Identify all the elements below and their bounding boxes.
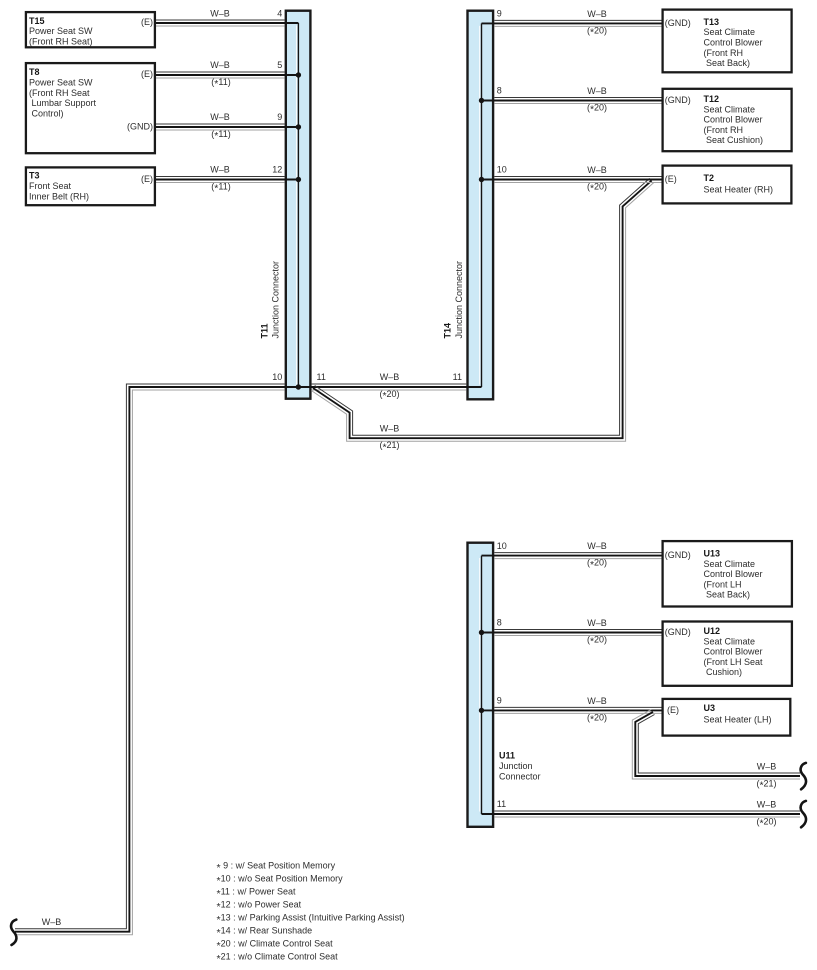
svg-text:(GND): (GND) xyxy=(665,550,691,560)
svg-text:(GND): (GND) xyxy=(665,627,691,637)
svg-text:5: 5 xyxy=(277,60,282,70)
wire W-B (*11) from T8 (GND) to T11 pin 9 xyxy=(156,124,298,130)
junction dot T14 pin 8 xyxy=(479,98,484,103)
svg-text:T15: T15 xyxy=(29,16,45,26)
svg-text:T13: T13 xyxy=(704,17,720,27)
svg-text:(Front RH Seat: (Front RH Seat xyxy=(29,88,90,98)
T11 internal busbar xyxy=(297,23,299,387)
svg-text:U13: U13 xyxy=(704,549,721,559)
junction connector T14 bar xyxy=(468,11,494,400)
junction dot T11 pin 9 xyxy=(296,124,301,129)
svg-text:Seat Heater (RH): Seat Heater (RH) xyxy=(704,184,774,194)
wire W-B (*11) from T3 (E) to T11 pin 12 xyxy=(156,177,298,183)
svg-text:4: 4 xyxy=(277,9,282,19)
component box T12 Seat Climate Control Blower (Front RH Seat Cushion) xyxy=(663,89,792,151)
svg-text:T11: T11 xyxy=(259,323,269,338)
wire break symbol right side upper (*21) xyxy=(801,763,806,789)
wire W-B (*20) from T14 pin 10 to T2 (E) xyxy=(482,177,662,183)
svg-text:(Front RH: (Front RH xyxy=(704,48,744,58)
svg-text:(E): (E) xyxy=(141,174,153,184)
svg-text:Connector: Connector xyxy=(499,772,541,782)
junction dot T11 pin 12 xyxy=(296,177,301,182)
svg-text:Seat Cushion): Seat Cushion) xyxy=(706,135,763,145)
svg-text:W–B: W–B xyxy=(210,60,230,70)
svg-text:(Front LH: (Front LH xyxy=(704,579,742,589)
svg-text:Control Blower: Control Blower xyxy=(704,38,763,48)
svg-text:U11: U11 xyxy=(499,751,515,761)
component box T3 Front Seat Inner Belt (RH) xyxy=(26,167,155,205)
svg-text:9: 9 xyxy=(497,696,502,706)
T14 internal busbar xyxy=(480,23,482,387)
svg-text:Front Seat: Front Seat xyxy=(29,181,72,191)
svg-text:12: 12 xyxy=(272,165,282,175)
label U11 Junction Connector xyxy=(499,751,541,782)
svg-text:W–B: W–B xyxy=(380,423,400,433)
wire W-B (*20) from T14 pin 8 to T12 (GND) xyxy=(482,98,662,104)
svg-text:Lumbar Support: Lumbar Support xyxy=(32,98,97,108)
component box T2 Seat Heater (RH) xyxy=(663,166,792,204)
svg-text:W–B: W–B xyxy=(757,762,777,772)
svg-text:W–B: W–B xyxy=(380,372,400,382)
wire break symbol at bottom-left xyxy=(11,920,16,945)
svg-text:W–B: W–B xyxy=(587,618,607,628)
svg-text:11: 11 xyxy=(317,372,326,382)
svg-text:W–B: W–B xyxy=(587,696,607,706)
svg-text:Seat Heater (LH): Seat Heater (LH) xyxy=(704,714,772,724)
wire W-B (*20) from T14 pin 9 to T13 (GND) xyxy=(482,20,662,26)
svg-text:(E): (E) xyxy=(665,174,677,184)
svg-text:Seat Back): Seat Back) xyxy=(706,58,750,68)
svg-text:9: 9 xyxy=(277,112,282,122)
svg-text:W–B: W–B xyxy=(210,9,230,19)
svg-text:W–B: W–B xyxy=(42,917,62,927)
component box U3 Seat Heater (LH) xyxy=(663,699,791,736)
wire W-B (*21) branch from U3 (E) down and right to off-page xyxy=(632,709,800,779)
svg-text:T2: T2 xyxy=(704,173,715,183)
svg-text:Seat Climate: Seat Climate xyxy=(704,636,756,646)
svg-text:Power Seat SW: Power Seat SW xyxy=(29,26,93,36)
wire W-B (*20) from U11 pin 9 to U3 (E) xyxy=(482,707,662,713)
svg-text:Control Blower: Control Blower xyxy=(704,647,763,657)
svg-text:(Front LH Seat: (Front LH Seat xyxy=(704,657,764,667)
component box T13 Seat Climate Control Blower (Front RH Seat Back) xyxy=(663,10,792,73)
component box U13 Seat Climate Control Blower (Front LH Seat Back) xyxy=(663,541,792,606)
wire W-B from T11 pin 10 / pin 11 to T14 pin 11 and down-left to off-page xyxy=(15,384,482,935)
svg-text:(E): (E) xyxy=(141,69,153,79)
svg-text:W–B: W–B xyxy=(757,800,777,810)
label T11 Junction Connector (rotated) xyxy=(259,261,280,339)
wire break symbol right side lower (*20) xyxy=(801,801,806,827)
svg-text:W–B: W–B xyxy=(587,9,607,19)
junction connector U11 bar xyxy=(468,543,494,827)
svg-text:U12: U12 xyxy=(704,626,721,636)
junction dot T11 pin 5 xyxy=(296,72,301,77)
U11 internal busbar xyxy=(480,556,482,814)
svg-text:Control): Control) xyxy=(32,108,64,118)
component box T15 Power Seat SW (Front RH Seat) xyxy=(26,12,155,47)
wire W-B (*21) branch from T11 pin 11 to T2 xyxy=(311,178,653,441)
svg-text:(E): (E) xyxy=(667,705,679,715)
wire W-B (*20) from U11 pin 11 to off-page right xyxy=(482,811,801,817)
svg-text:(GND): (GND) xyxy=(665,95,691,105)
svg-text:Control Blower: Control Blower xyxy=(704,569,763,579)
svg-text:Junction Connector: Junction Connector xyxy=(454,261,464,339)
svg-text:10: 10 xyxy=(272,372,282,382)
svg-text:9: 9 xyxy=(497,9,502,19)
wire W-B from T15 (E) to T11 pin 4 xyxy=(156,20,298,26)
svg-text:10: 10 xyxy=(497,165,507,175)
wire W-B (*11) from T8 (E) to T11 pin 5 xyxy=(156,72,298,78)
svg-text:T3: T3 xyxy=(29,171,40,181)
svg-text:Junction: Junction xyxy=(499,761,533,771)
svg-text:T14: T14 xyxy=(443,323,453,339)
svg-text:10: 10 xyxy=(497,541,507,551)
wire W-B (*20) from U11 pin 8 to U12 (GND) xyxy=(482,630,662,636)
svg-text:T8: T8 xyxy=(29,67,40,77)
svg-text:W–B: W–B xyxy=(210,112,230,122)
svg-text:W–B: W–B xyxy=(587,86,607,96)
svg-text:Inner Belt (RH): Inner Belt (RH) xyxy=(29,191,89,201)
svg-text:T12: T12 xyxy=(704,94,720,104)
svg-text:11: 11 xyxy=(453,372,462,382)
svg-text:W–B: W–B xyxy=(587,165,607,175)
svg-text:(Front RH Seat): (Front RH Seat) xyxy=(29,37,93,47)
svg-text:U3: U3 xyxy=(704,703,716,713)
wire W-B (*20) from U11 pin 10 to U13 (GND) xyxy=(482,553,662,559)
svg-text:(GND): (GND) xyxy=(665,18,691,28)
svg-text:Control Blower: Control Blower xyxy=(704,115,763,125)
svg-text:(Front RH: (Front RH xyxy=(704,125,744,135)
svg-text:Cushion): Cushion) xyxy=(706,667,742,677)
svg-text:Seat Climate: Seat Climate xyxy=(704,559,756,569)
junction dot U11 pin 8 xyxy=(479,630,484,635)
component box T8 Power Seat SW (Front RH Seat Lumbar Support Control) xyxy=(26,63,155,153)
svg-text:W–B: W–B xyxy=(587,541,607,551)
svg-text:Seat Back): Seat Back) xyxy=(706,590,750,600)
svg-text:Power Seat SW: Power Seat SW xyxy=(29,78,93,88)
component box U12 Seat Climate Control Blower (Front LH Seat Cushion) xyxy=(663,622,792,686)
junction dot U11 pin 9 xyxy=(479,708,484,713)
svg-text:8: 8 xyxy=(497,86,502,96)
label T14 Junction Connector (rotated) xyxy=(443,261,465,339)
junction connector T11 bar xyxy=(286,11,311,399)
svg-text:(GND): (GND) xyxy=(127,122,153,132)
svg-text:Seat Climate: Seat Climate xyxy=(704,104,756,114)
svg-text:Junction Connector: Junction Connector xyxy=(271,261,281,339)
junction dot T14 pin 10 xyxy=(479,177,484,182)
svg-text:W–B: W–B xyxy=(210,165,230,175)
svg-text:(E): (E) xyxy=(141,17,153,27)
svg-text:Seat Climate: Seat Climate xyxy=(704,27,756,37)
svg-text:8: 8 xyxy=(497,618,502,628)
junction dot T11 pin 10/11 xyxy=(296,384,301,389)
svg-text:11: 11 xyxy=(497,799,506,809)
